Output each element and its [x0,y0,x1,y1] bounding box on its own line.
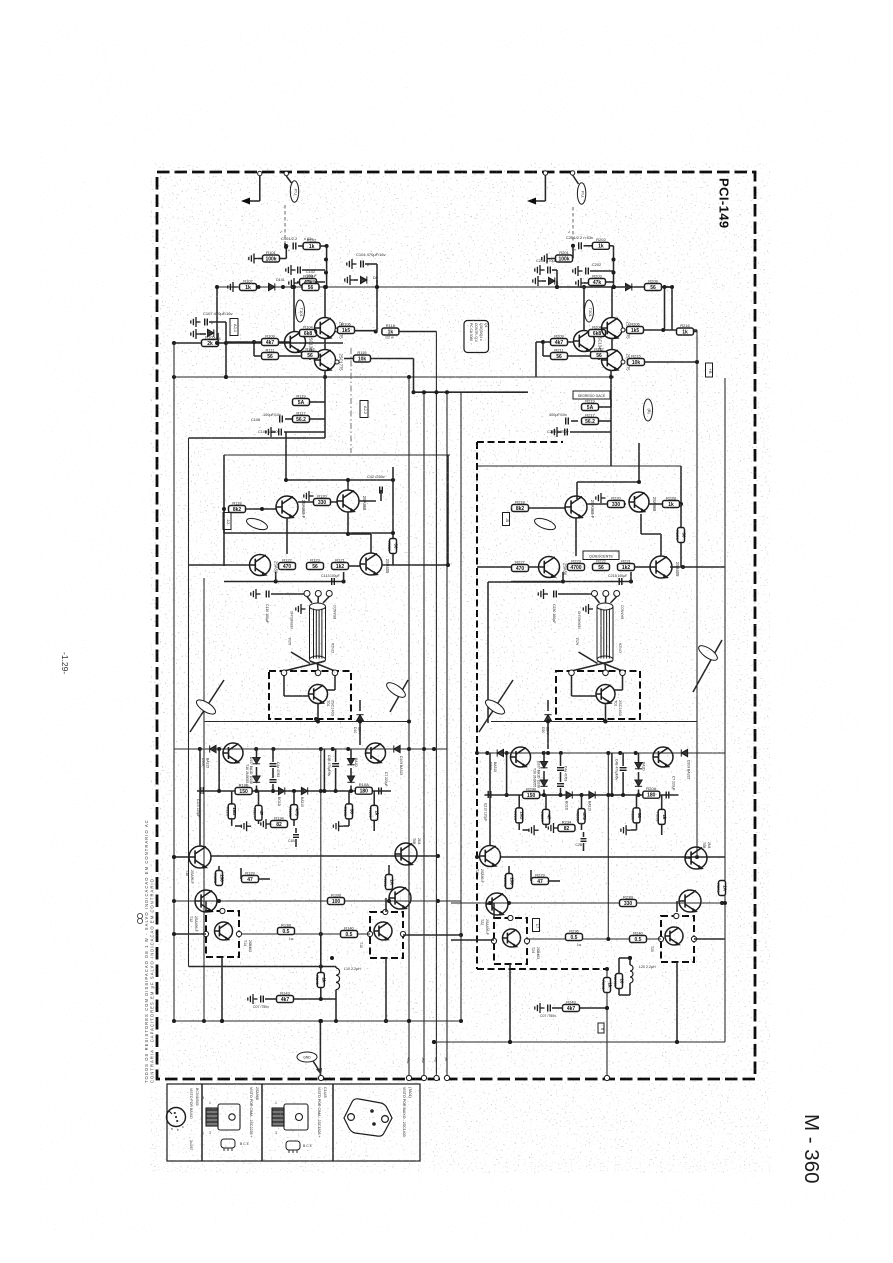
capacitor C102 [298,267,301,274]
transformer terminal [614,591,620,597]
capacitor C104 [361,261,364,268]
wire [611,338,613,350]
capacitor C217 [620,768,627,771]
wire [298,245,304,247]
wire [376,287,378,332]
junction [542,751,546,755]
wire [174,1020,461,1022]
junction [215,285,219,289]
wire [683,566,725,568]
junction [271,747,275,751]
junction [292,789,296,793]
junction [675,1040,679,1044]
wire [189,437,326,439]
junction [629,580,633,584]
wire [324,419,326,432]
scan noise [0,0,1,1]
inner box edge [223,455,225,566]
wire [209,321,226,323]
driver transistor enclosure L2 [370,912,403,958]
wire [560,753,562,766]
lead [323,597,329,604]
center column wire [320,749,322,934]
capacitor C109 [279,429,282,436]
wire [271,593,304,595]
resistor R232 R232 [656,809,668,824]
wire [320,988,322,1000]
wire [280,258,286,260]
left input return line [188,438,190,967]
resistor R111 R111 [262,347,279,360]
junction [349,789,353,793]
resistor R140 R140 [341,925,358,938]
resistor R242 R242b [613,974,625,989]
wire [638,443,640,482]
feedback bus wire [460,392,462,1021]
resistor R208 R208 [645,278,662,291]
wire [189,966,337,968]
junction [679,502,683,506]
wire [354,279,358,281]
wire [552,269,557,271]
junction [559,793,563,797]
ground [191,317,201,327]
diode D110 [356,715,363,721]
wire [676,962,678,1042]
wire [297,281,301,283]
wire [631,829,637,831]
junction [612,285,616,289]
diode D108 [361,276,367,283]
terminal -B2 [421,1075,426,1080]
wire [610,370,612,377]
wire [598,661,623,671]
resistor R101 R101 [263,250,280,262]
terminal [284,171,288,175]
wire [199,749,201,846]
legend package 2SC2238b [272,1104,308,1130]
junction [215,341,219,345]
wire [388,865,390,875]
resistor R142 R142 [315,973,327,988]
junction [446,563,450,567]
terminal [658,936,663,941]
resistor R143 R143 [277,990,294,1003]
wire [676,901,678,912]
legend small package outline [286,1141,300,1150]
output transistor T207 [596,685,615,704]
wire [556,270,558,287]
wire [320,967,322,973]
wire [543,771,545,780]
resistor R109 R109 [262,333,279,346]
junction [675,1040,679,1044]
wire [560,788,562,795]
ground [529,825,539,835]
capacitor C113 [332,578,335,585]
zener D103 [208,329,214,336]
wire [581,824,583,830]
diode D109 [394,745,400,752]
wire [579,652,598,664]
legend TO-92 bottom view [167,1108,186,1127]
junction [222,507,226,511]
junction [432,1040,436,1044]
wire [573,175,579,184]
wire [680,504,682,527]
resistor R225 R221 [618,558,635,571]
wire [315,281,325,283]
transistor T106 2SA56 [250,555,271,576]
junction [505,793,509,797]
inductor L101 [336,968,340,990]
junction [342,580,346,584]
driver transistor enclosure R1 [494,918,527,964]
wire [225,343,227,377]
wire [611,287,613,318]
transistor T10B 2SB405 [360,553,382,575]
output transistor T107 [309,685,328,704]
junction [459,933,463,937]
diode D115 [301,787,307,794]
wire [605,704,607,722]
wire [285,246,287,259]
wire [286,479,393,481]
wire [334,676,336,690]
diode D207 [540,762,547,768]
resistor R203 R203 [589,273,606,286]
junction [284,244,288,248]
ground [249,254,259,264]
wire [174,748,447,750]
wire [295,828,297,833]
junction [695,855,699,859]
wire [284,243,286,246]
junction [621,793,625,797]
junction [323,285,327,289]
capacitor C112 [380,487,383,494]
resistor R231 R231 [716,881,728,896]
junction [391,531,395,535]
wire [258,878,270,880]
wire [326,246,328,287]
QUIESCENTE label [583,551,619,560]
junction [323,375,327,379]
resistor R134 R134 [271,815,288,828]
wire [506,753,508,795]
resistor R227 R227 [540,809,552,824]
capacitor C215 [619,578,622,585]
resistor R240 R240 [630,930,647,943]
junction [546,751,550,755]
junction [475,751,479,755]
label box left [223,513,231,530]
wire [205,901,207,912]
transistor T23 [679,890,701,912]
wire [231,791,233,804]
wire [572,661,613,671]
resistor R226 R226 [513,808,525,823]
junction [505,751,509,755]
wire [285,245,286,247]
wire [547,700,549,711]
wire [604,663,607,670]
resistor R102 R102 [303,237,320,250]
wire [618,988,620,995]
wire [670,566,683,568]
ground [289,278,299,288]
transistor T102 2SC1775 [315,318,336,339]
resistor R106 R106 [338,321,355,334]
wire [347,480,349,490]
resistor R234 R234 [558,819,575,832]
junction [318,1019,322,1023]
resistor R222 R222 [593,558,610,571]
wire [218,342,226,344]
capacitor C107 [205,319,208,326]
wire [272,768,274,778]
transistor T20 2SA496 [480,846,501,867]
wire [615,689,623,691]
junction [374,330,378,334]
ground [576,278,586,288]
diode D113 [347,776,354,782]
wire [518,824,520,830]
junction [407,720,411,724]
power transistor T11 [366,743,386,763]
junction [634,751,638,755]
resistor R125 R19B [235,782,252,795]
wire [523,829,530,831]
resistor R225 R29B [523,786,540,799]
resistor R129 R129 [242,870,259,883]
junction [541,340,545,344]
wire [275,572,277,582]
diode D201 [626,283,632,290]
terminal [543,171,547,175]
junction [559,751,563,755]
wire [584,282,589,284]
wire [570,431,611,433]
wire [572,246,574,259]
wire [644,361,697,363]
wire [190,680,224,732]
wire [323,749,325,791]
junction [334,1019,338,1023]
legend divider [332,1084,334,1161]
junction [322,789,326,793]
wire [283,676,285,696]
wire [477,566,538,568]
diode D107 [253,758,260,764]
junction [284,478,288,482]
capacitor C117 [332,764,339,767]
junction [384,1019,388,1023]
wire [246,508,276,510]
wire [197,790,391,792]
junction [637,793,641,797]
resistor R238 R23B [620,894,637,907]
wire [567,355,599,357]
wire [350,768,352,776]
wire [576,482,578,499]
wire [477,856,479,858]
input connector oval left [290,181,298,202]
wire [511,581,631,583]
wire [584,245,594,247]
capacitor C218 [666,792,669,799]
terminal [258,171,262,175]
wire [501,856,725,858]
resistor R224 R22B [663,495,680,508]
terminal [400,931,405,936]
center column wire [607,753,609,938]
terminal [315,670,321,676]
resistor R204 R204 [589,324,606,337]
junction [628,956,632,960]
junction [612,258,616,262]
ground [345,275,355,285]
wire [634,566,650,568]
junction [605,1006,609,1010]
junction [331,747,335,751]
wire [335,990,337,999]
resistor R243 R243 [563,999,580,1012]
wire [610,421,612,432]
wire [385,958,387,1021]
wire [256,749,258,757]
transformer terminal [592,591,598,597]
wire [223,509,225,533]
wire [610,432,612,466]
wire [619,994,630,996]
terminal [621,360,625,364]
wire [577,481,639,483]
resistor R112 R113 [302,346,319,359]
wire [605,281,614,283]
output transistor enclosure right [556,671,640,719]
ground [248,994,258,1004]
terminal -B [444,1075,449,1080]
wire [174,376,614,378]
terminal [335,360,339,364]
ground [583,604,593,614]
wire [256,767,258,776]
wire [348,565,360,567]
diode D214 [566,791,572,798]
label box SEGREDO [573,391,610,399]
transistor T10B [395,843,417,865]
capacitor C101 [293,243,296,250]
wire [240,868,242,879]
left feedback line [173,342,175,1021]
resistor R202 R202 [592,237,609,250]
wire [613,246,615,287]
resistor R216 R216 [677,323,694,336]
wire [313,1061,320,1072]
wire [189,564,251,566]
junction [330,956,334,960]
wire [558,593,592,595]
wire [556,281,558,287]
wire [638,753,640,762]
wire [324,377,326,402]
junction [637,480,641,484]
terminal [674,913,679,918]
capacitor C209 [565,429,568,436]
junction [606,751,610,755]
wire [218,866,220,871]
input connector oval right [577,183,585,204]
ground [538,589,548,599]
terminal [491,938,496,943]
junction [217,747,221,751]
resistor R242 R242 [601,978,613,993]
resistor R121 R11B [387,539,399,554]
wire [244,200,260,202]
wire [256,786,258,792]
resistor R219 R219 [582,398,599,411]
wire [376,280,378,287]
junction [172,855,176,859]
resistor R127 R127 [253,805,265,820]
junction [346,478,350,482]
junction [661,328,665,332]
wire [630,572,632,582]
wire [231,820,233,826]
junction [319,965,323,969]
rail wire [557,286,672,288]
right channel dashed shield left edge [476,442,478,969]
wire [174,900,461,902]
wire [285,418,292,420]
power bus wire +B1 [408,377,410,1078]
wire [547,722,549,750]
wire [348,791,350,804]
junction [324,285,328,289]
transistor T201 2SC1345 [574,331,595,352]
ground [542,254,552,264]
wire [451,939,494,941]
junction [217,789,221,793]
junction [663,285,667,289]
resistor R119 R119 [293,393,310,406]
lead [605,597,607,604]
resistor R103 R103 [300,273,317,286]
junction [198,747,202,751]
terminal [383,909,388,914]
junction [582,285,586,289]
capacitor C115 [270,764,277,767]
legend divider [261,1084,263,1161]
wire [638,790,640,796]
junction [407,375,411,379]
oval label T101 [296,300,305,322]
junction [407,1019,411,1023]
diode D215 [589,791,595,798]
diode D114 [279,787,285,794]
resistor R107 R107 [240,278,257,291]
wire [572,695,597,697]
junction [224,341,228,345]
transistor T20B 2SB405 [650,556,672,578]
wire [580,1007,607,1009]
oval label +B [696,643,719,663]
junction [670,285,674,289]
wire [224,454,450,456]
wire [174,933,206,935]
transistor T24 2SB463 [503,929,521,947]
